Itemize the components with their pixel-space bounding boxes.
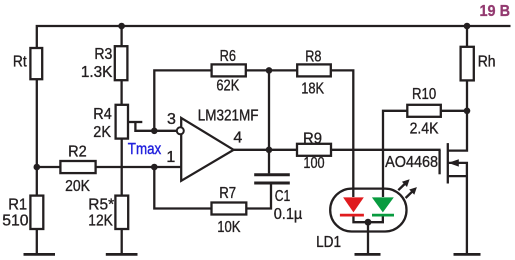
svg-text:1: 1 [166, 149, 175, 166]
svg-text:R6: R6 [220, 48, 236, 65]
svg-text:3: 3 [167, 111, 176, 128]
svg-text:Rh: Rh [478, 54, 496, 71]
svg-text:C1: C1 [275, 188, 291, 205]
svg-text:R10: R10 [412, 86, 436, 103]
svg-text:10K: 10K [217, 219, 241, 236]
svg-text:1.3K: 1.3K [81, 64, 113, 81]
svg-text:R7: R7 [219, 185, 236, 202]
svg-text:0.1µ: 0.1µ [274, 206, 303, 223]
svg-text:LM321MF: LM321MF [198, 108, 259, 125]
svg-text:R4: R4 [93, 106, 112, 123]
svg-text:18K: 18K [301, 81, 324, 98]
svg-text:LD1: LD1 [316, 234, 341, 251]
svg-text:R1: R1 [8, 197, 27, 214]
svg-text:4: 4 [233, 129, 242, 146]
svg-text:Tmax: Tmax [128, 141, 161, 158]
svg-text:2K: 2K [93, 124, 111, 141]
svg-text:AO4468: AO4468 [385, 154, 438, 171]
svg-text:R3: R3 [94, 46, 112, 63]
svg-text:100: 100 [303, 155, 324, 172]
svg-text:510: 510 [2, 213, 28, 230]
svg-text:20K: 20K [65, 178, 90, 195]
svg-text:R8: R8 [305, 48, 321, 65]
svg-text:R5*: R5* [88, 197, 114, 214]
svg-text:Rt: Rt [13, 53, 27, 70]
svg-text:R9: R9 [303, 130, 322, 147]
svg-text:2.4K: 2.4K [410, 120, 439, 137]
svg-text:62K: 62K [216, 77, 239, 94]
svg-text:R2: R2 [68, 143, 87, 160]
svg-text:19 В: 19 В [480, 3, 511, 20]
svg-text:12K: 12K [88, 213, 113, 230]
